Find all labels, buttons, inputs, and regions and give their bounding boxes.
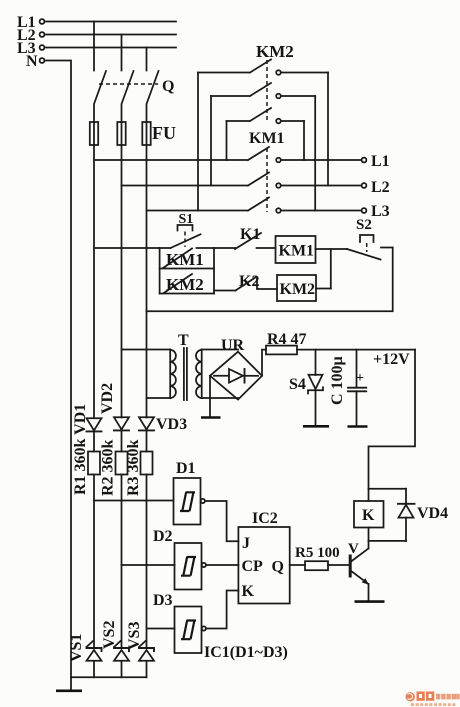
svg-text:+: +	[356, 371, 364, 386]
wire phase1 lower	[93, 431, 95, 647]
terminal N	[26, 53, 44, 70]
svg-text:CP: CP	[242, 558, 264, 575]
terminal L1 out	[362, 153, 390, 170]
rectifier UR bridge	[210, 352, 262, 400]
terminal L2	[17, 27, 44, 44]
transistor V	[348, 541, 369, 585]
svg-text:L3: L3	[371, 203, 390, 220]
wire L1 bus	[44, 21, 176, 23]
fuse FU2	[117, 122, 125, 145]
contactor KM2 contact 3	[227, 108, 305, 123]
contactor KM1 contact 2	[122, 173, 362, 188]
wire +12V feed	[369, 350, 416, 501]
zener S4	[289, 350, 323, 425]
wire aux bracket right	[213, 248, 215, 294]
svg-text:KM1: KM1	[249, 130, 285, 147]
terminal L1	[17, 14, 44, 31]
relay contact K2	[214, 273, 277, 291]
coil KM2	[277, 275, 331, 301]
breaker Q linkage dashed	[99, 83, 158, 85]
resistor R5	[295, 545, 349, 570]
wire phase2 lower	[121, 430, 123, 647]
resistor R1	[88, 452, 100, 475]
terminal L3 out	[362, 203, 390, 220]
svg-text:R4 47: R4 47	[267, 331, 307, 348]
svg-text:K: K	[242, 583, 255, 600]
wire KM2 bracket 2	[210, 96, 212, 186]
fuse FU3	[142, 122, 150, 145]
fuse FU1	[90, 122, 98, 145]
flipflop IC2	[238, 510, 289, 604]
wire relay bottom node	[369, 540, 407, 542]
svg-text:S2: S2	[356, 217, 372, 233]
svg-text:K: K	[362, 507, 375, 524]
wire D3 to K	[206, 591, 239, 629]
svg-text:+12V: +12V	[373, 351, 410, 368]
wire Q out	[290, 564, 305, 566]
coil KM1	[276, 236, 348, 263]
svg-text:KM1: KM1	[279, 243, 315, 260]
thyristor VS1	[87, 641, 102, 677]
diode VD3	[139, 416, 187, 433]
wire bridge plus	[262, 350, 266, 376]
resistor R4	[266, 331, 307, 354]
contactor KM1 contact 3	[147, 198, 362, 213]
resistor R2	[116, 452, 128, 475]
wire D1 to J	[205, 501, 239, 541]
breaker Q pole1	[94, 71, 106, 122]
breaker Q pole3	[147, 71, 159, 122]
ground emitter	[355, 584, 385, 602]
terminal L3	[17, 40, 44, 57]
breaker Q pole2	[122, 71, 134, 122]
svg-text:VS1: VS1	[68, 634, 85, 662]
diode VD4	[398, 489, 448, 541]
svg-text:D2: D2	[153, 528, 173, 545]
svg-text:IC1(D1~D3): IC1(D1~D3)	[204, 644, 288, 661]
wire phase1 vertical	[93, 145, 95, 418]
thyristor VS2	[114, 641, 129, 677]
aux contact KM2	[160, 274, 214, 294]
gate D2	[122, 543, 206, 590]
gate D1	[94, 478, 205, 525]
svg-text:KM2: KM2	[280, 281, 316, 298]
ground main	[56, 677, 82, 691]
contactor KM1 contact 1	[94, 147, 362, 162]
diode VD1	[87, 418, 102, 431]
svg-text:Q: Q	[162, 78, 174, 95]
wire bottom rail	[71, 676, 147, 678]
pushbutton S2	[347, 235, 393, 260]
svg-text:T: T	[178, 332, 189, 349]
wire phase2 vertical	[121, 145, 123, 418]
wire collector	[368, 528, 370, 549]
wire coil common	[330, 249, 332, 289]
transformer T secondary	[196, 350, 238, 399]
aux contact KM1	[160, 249, 214, 270]
svg-text:N: N	[26, 53, 38, 70]
wire KM2 out 2 to L3 row	[314, 96, 316, 211]
svg-text:Q: Q	[272, 559, 284, 576]
svg-text:R1 360k VD1: R1 360k VD1	[72, 404, 89, 495]
svg-text:L1: L1	[371, 153, 390, 170]
wire phase2 drop	[121, 35, 123, 71]
svg-text:J: J	[242, 535, 250, 552]
wire relay top node	[369, 488, 407, 490]
wire D2 to CP	[206, 564, 239, 566]
wire L3 bus	[44, 47, 176, 49]
watermark logo	[406, 692, 460, 707]
ground capacitor	[348, 425, 368, 428]
svg-text:L2: L2	[371, 179, 390, 196]
svg-text:D1: D1	[176, 460, 196, 477]
capacitor C	[348, 350, 366, 426]
relay contact K1	[235, 226, 261, 249]
diode VD2	[114, 417, 129, 430]
wire L2 bus	[44, 34, 176, 36]
wire KM2 bracket 1	[197, 73, 199, 211]
svg-text:R2 360k: R2 360k	[100, 439, 117, 496]
thyristor VS3	[139, 641, 154, 677]
svg-text:VS3: VS3	[126, 622, 143, 650]
svg-text:UR: UR	[221, 337, 245, 354]
pushbutton S1	[171, 225, 201, 248]
wire N down	[44, 61, 71, 678]
wire control rail	[94, 247, 276, 249]
svg-text:VD4: VD4	[417, 505, 448, 522]
wire phase1 drop	[93, 22, 95, 71]
resistor R3	[141, 452, 153, 475]
svg-text:VS2: VS2	[101, 621, 118, 649]
svg-text:D3: D3	[153, 592, 173, 609]
svg-text:VD2: VD2	[99, 383, 116, 414]
wire phase3 lower	[146, 430, 148, 647]
wire phase3 drop	[146, 48, 148, 71]
gate D3	[147, 607, 206, 654]
svg-text:KM2: KM2	[256, 42, 294, 61]
contactor KM2 contact 1	[198, 60, 328, 75]
wire dc rail	[297, 349, 415, 351]
svg-text:VD3: VD3	[156, 416, 187, 433]
wire phase3 vertical	[146, 145, 148, 418]
contactor KM1 linkage dashed	[266, 148, 268, 212]
ground rectifier	[201, 376, 221, 418]
wire control return	[147, 248, 393, 312]
svg-text:S4: S4	[289, 376, 306, 393]
contactor KM2 contact 2	[211, 83, 315, 98]
transformer T primary	[122, 350, 176, 399]
wire KM2 out 3 to L1 row	[303, 121, 305, 160]
svg-text:FU: FU	[152, 123, 176, 143]
terminal L2 out	[362, 179, 390, 196]
wire aux bracket left	[159, 248, 161, 294]
svg-text:IC2: IC2	[252, 510, 278, 527]
svg-text:C 100µ: C 100µ	[329, 356, 346, 405]
wire KM2 bracket 3	[226, 121, 228, 160]
transformer T core	[184, 348, 187, 400]
relay K	[354, 501, 384, 528]
ground zener	[303, 425, 329, 428]
wire KM2 out 1 to L2 row	[327, 73, 329, 186]
svg-text:R5 100: R5 100	[295, 545, 340, 561]
contactor KM2 linkage dashed	[266, 60, 268, 122]
